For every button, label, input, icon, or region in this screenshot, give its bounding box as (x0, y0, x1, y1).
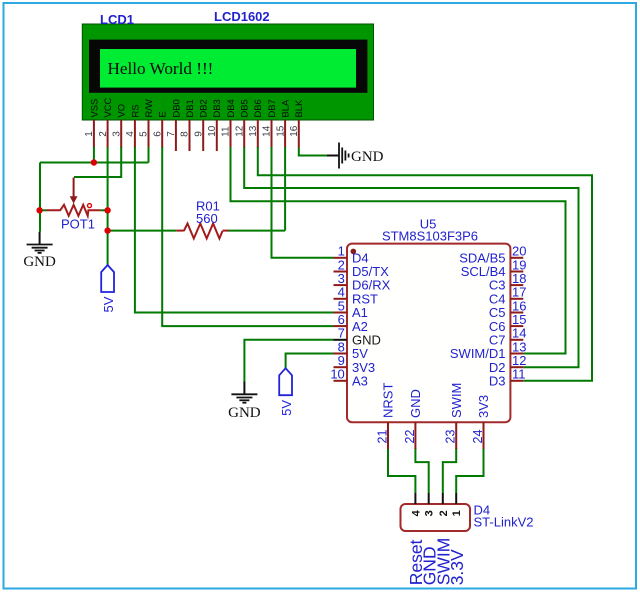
wire RS (pin4) to MCU A1 (135, 147, 334, 313)
wire POT1 left lead (40, 209, 47, 211)
connector pin 2 (438, 493, 450, 516)
MCU pin 18 (C3) (489, 271, 527, 293)
svg-text:VSS: VSS (88, 99, 99, 118)
svg-text:6: 6 (152, 131, 163, 137)
wire GND (pin22) to connector pin3 (415, 448, 428, 493)
LCD pin 12 (DB5) (234, 99, 249, 148)
LCD pin 6 (E) (152, 111, 167, 148)
node 5V / R01 junction (104, 227, 110, 233)
wire MCU GND (pin7) to ground (244, 340, 333, 382)
svg-text:GND: GND (23, 254, 56, 270)
LCD pin 11 (DB4) (221, 99, 236, 148)
svg-text:BLK: BLK (293, 99, 304, 117)
power 5V (MCU pin8) (279, 368, 294, 416)
connector pin 1 (451, 493, 463, 516)
node POT1 left junction (36, 207, 42, 213)
svg-text:11: 11 (512, 367, 526, 382)
wire NRST (pin21) to connector pin4 (388, 448, 415, 493)
svg-text:8: 8 (180, 131, 191, 137)
connector pin 4 (410, 493, 422, 516)
LCD pin 14 (DB7) (262, 99, 277, 148)
MCU pin 7 (GND) (334, 326, 381, 348)
svg-text:3.3V: 3.3V (447, 549, 467, 585)
svg-text:10: 10 (207, 125, 218, 137)
wire VO (pin3) to POT1 wiper (74, 147, 121, 177)
LCD pin 9 (DB2) (193, 99, 208, 151)
LCD pin 8 (DB1) (180, 99, 195, 151)
svg-text:LCD1602: LCD1602 (214, 9, 270, 24)
wire ground rail y=162.5 (40, 162, 149, 164)
svg-text:GND: GND (408, 389, 423, 418)
svg-text:12: 12 (234, 125, 245, 137)
ground (LCD BLK pin16) (327, 143, 384, 169)
svg-text:Hello World !!!: Hello World !!! (108, 59, 214, 78)
svg-text:DB4: DB4 (225, 99, 236, 117)
svg-text:NRST: NRST (381, 383, 396, 418)
wire MCU 5V (pin8) to 5V supply (286, 354, 334, 369)
ground (below POT1 / VSS rail) (23, 232, 56, 270)
svg-text:DB3: DB3 (211, 99, 222, 117)
svg-text:5: 5 (139, 131, 150, 137)
svg-text:DB2: DB2 (198, 99, 209, 117)
svg-text:11: 11 (221, 126, 232, 137)
MCU pin 22 (GND) (403, 389, 423, 449)
svg-text:DB1: DB1 (184, 99, 195, 117)
LCD pin 4 (RS) (125, 104, 140, 148)
MCU pin 12 (D2) (489, 353, 527, 375)
node VSS/rail junction (91, 159, 97, 165)
svg-text:2: 2 (438, 510, 450, 516)
svg-text:E: E (157, 111, 168, 117)
svg-text:1: 1 (84, 131, 95, 137)
svg-text:15: 15 (275, 125, 286, 137)
svg-text:DB5: DB5 (239, 99, 250, 117)
svg-text:4: 4 (410, 509, 422, 516)
MCU pin 6 (A2) (334, 312, 368, 334)
svg-text:22: 22 (403, 430, 417, 444)
power 5V (VCC rail) (101, 265, 116, 313)
svg-text:7: 7 (166, 131, 177, 137)
svg-text:RS: RS (129, 104, 140, 117)
wire DB5 (pin12) to MCU D2 (244, 147, 578, 367)
LCD pin 10 (DB3) (207, 99, 222, 151)
svg-text:10: 10 (330, 367, 344, 382)
svg-text:5V: 5V (101, 296, 116, 312)
wire DB6 (pin13) to MCU D3 (258, 147, 592, 381)
LCD pin 7 (DB0) (166, 99, 181, 151)
svg-text:DB6: DB6 (252, 99, 263, 117)
svg-text:560: 560 (196, 211, 218, 226)
MCU pin 19 (SCL/B4) (461, 257, 527, 279)
MCU pin 17 (C4) (489, 285, 527, 307)
MCU pin 3 (D6/RX) (334, 271, 391, 293)
wire POT1 right lead to VCC (100, 209, 107, 211)
svg-text:GND: GND (228, 405, 261, 421)
svg-text:5V: 5V (279, 400, 294, 416)
LCD pin 16 (BLK) (289, 99, 304, 148)
LCD pin 2 (VCC) (98, 97, 113, 148)
resistor R01 (176, 224, 228, 239)
MCU U5 STM8S103F3P6 box (347, 244, 510, 423)
svg-text:SWIM: SWIM (449, 383, 464, 418)
wire 5V rail to R01 left (108, 230, 177, 232)
svg-text:STM8S103F3P6: STM8S103F3P6 (382, 229, 478, 244)
svg-text:4: 4 (125, 131, 136, 137)
LCD module LCD1 (LCD1602) body (82, 24, 373, 120)
svg-text:3: 3 (111, 131, 122, 137)
MCU pin 23 (SWIM) (444, 383, 464, 449)
LCD pin 5 (R/W) (139, 99, 154, 148)
svg-text:23: 23 (444, 430, 458, 444)
MCU pin 10 (A3) (330, 367, 368, 389)
svg-text:13: 13 (248, 125, 259, 137)
svg-text:DB0: DB0 (170, 99, 181, 117)
svg-text:R/W: R/W (143, 99, 154, 117)
svg-text:1: 1 (451, 510, 463, 516)
MCU pin 14 (C7) (489, 326, 527, 348)
connector pin 3 (424, 493, 436, 516)
svg-text:24: 24 (471, 430, 485, 444)
svg-text:16: 16 (289, 125, 300, 137)
MCU pin 9 (3V3) (334, 353, 376, 375)
svg-text:GND: GND (351, 149, 384, 165)
svg-text:VO: VO (116, 104, 127, 118)
svg-text:LCD1: LCD1 (100, 12, 134, 27)
svg-text:DB7: DB7 (266, 99, 277, 117)
svg-text:21: 21 (376, 430, 390, 444)
wire VSS (pin1) down to ground rail (93, 147, 95, 163)
MCU pin 4 (RST) (334, 285, 379, 307)
wire E (pin6) to MCU A2 (162, 147, 333, 326)
ground (MCU pin7 GND) (228, 382, 261, 422)
wire VCC (pin2) down through POT1 right to 5V (107, 147, 109, 265)
potentiometer POT1 (47, 178, 101, 216)
wire BLA (pin15) down to R01 (284, 147, 286, 231)
svg-text:2: 2 (98, 131, 109, 137)
MCU pin 15 (C6) (489, 312, 527, 334)
MCU pin 8 (5V) (334, 339, 369, 361)
LCD pin 15 (BLA) (275, 99, 290, 148)
MCU pin 24 (3V3) (471, 395, 491, 449)
wire 3V3 (pin24) to connector pin1 (456, 448, 483, 493)
svg-text:ST-LinkV2: ST-LinkV2 (474, 515, 534, 530)
MCU pin 20 (SDA/B5) (459, 244, 526, 266)
svg-text:14: 14 (262, 125, 273, 137)
MCU pin1 marker dot (351, 249, 357, 255)
wire BLK (pin16) to ground (299, 148, 327, 156)
svg-text:9: 9 (193, 131, 204, 137)
MCU pin 13 (SWIM/D1) (450, 339, 527, 361)
wire R01 right to BLA (228, 230, 285, 232)
wire R/W (pin5) down to ground rail (148, 147, 150, 163)
MCU pin 1 (D4) (334, 244, 369, 266)
svg-text:3: 3 (424, 510, 436, 516)
svg-text:BLA: BLA (280, 99, 291, 117)
MCU pin 2 (D5/TX) (334, 257, 390, 279)
svg-text:3V3: 3V3 (476, 395, 491, 418)
LCD pin 13 (DB6) (248, 99, 263, 148)
connector D4 ST-LinkV2 box (401, 504, 471, 531)
wire DB4 (pin11) to MCU SWIM/D1 (231, 147, 566, 354)
svg-text:A3: A3 (352, 373, 368, 388)
MCU pin 11 (D3) (489, 367, 526, 389)
wire SWIM (pin23) to connector pin2 (443, 448, 456, 493)
wire rail down to POT1 left / GND (39, 163, 41, 232)
MCU pin 16 (C5) (489, 298, 527, 320)
svg-text:VCC: VCC (102, 97, 113, 117)
svg-text:D3: D3 (489, 373, 506, 388)
node POT1 right / VCC junction (104, 207, 110, 213)
MCU pin 21 (NRST) (376, 383, 396, 449)
MCU pin 5 (A1) (334, 298, 368, 320)
wire DB7 (pin14) to MCU D4 (272, 147, 334, 258)
LCD pin 1 (VSS) (84, 99, 99, 148)
LCD pin 3 (VO) (111, 104, 126, 148)
svg-text:POT1: POT1 (61, 217, 95, 232)
